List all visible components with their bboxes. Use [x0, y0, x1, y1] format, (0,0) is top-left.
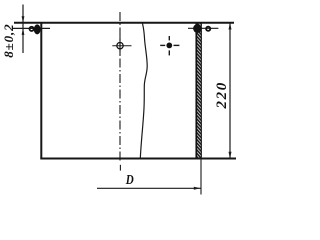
- svg-text:D: D: [125, 172, 134, 187]
- svg-text:8±0,2: 8±0,2: [1, 23, 16, 57]
- svg-text:220: 220: [214, 81, 230, 109]
